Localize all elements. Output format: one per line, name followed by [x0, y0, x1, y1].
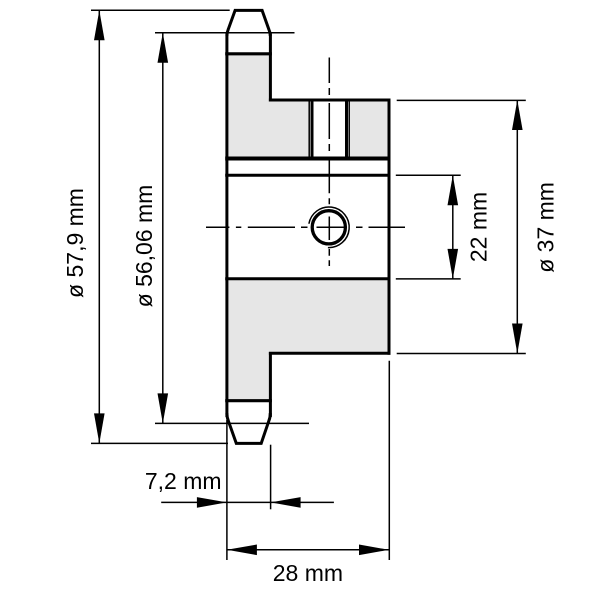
- sprocket upper body fill (plate + hub top): [227, 54, 389, 159]
- extension line tooth width left: [226, 420, 228, 560]
- svg-text:ø 37 mm: ø 37 mm: [533, 182, 559, 273]
- set-screw front hole thick circle: [312, 211, 345, 244]
- keyway top line: [225, 157, 390, 161]
- dimension line 22: [452, 175, 454, 279]
- upper tooth root line: [225, 52, 272, 55]
- extension line pitch dia bottom: [155, 422, 309, 424]
- svg-text:ø 57,9 mm: ø 57,9 mm: [62, 188, 88, 298]
- dimension line dia 57,9: [98, 10, 100, 443]
- dimension line 7,2 left part: [161, 501, 227, 503]
- extension line hub dia bottom: [397, 353, 526, 355]
- set-screw hole wall right: [345, 100, 348, 158]
- dimension line dia 56,06: [162, 33, 164, 424]
- set-screw hole cut-out (white): [309, 100, 349, 158]
- dimension line 7,2 middle part: [227, 501, 271, 503]
- bore bottom line: [225, 277, 390, 280]
- plate right edge upper: [269, 32, 272, 102]
- svg-text:7,2 mm: 7,2 mm: [145, 468, 222, 494]
- extension line hub dia top: [397, 99, 526, 101]
- set-screw front thread arc: [309, 207, 349, 248]
- svg-text:28 mm: 28 mm: [273, 560, 343, 586]
- bore top line: [225, 174, 390, 177]
- extension line tooth width right: [270, 445, 272, 510]
- set-screw hole wall left: [311, 100, 314, 158]
- extension line bore bottom: [396, 278, 461, 280]
- hub right edge: [388, 99, 391, 355]
- sprocket lower body fill (bore bottom to hub bottom + plate): [227, 279, 389, 401]
- extension line pitch dia top: [155, 32, 295, 34]
- hub bottom line: [269, 352, 391, 355]
- svg-text:ø 56,06 mm: ø 56,06 mm: [131, 185, 157, 308]
- extension line tip dia top: [91, 9, 230, 11]
- lower tooth outline: [227, 413, 270, 443]
- dimension line 28: [227, 549, 389, 551]
- extension line hub length right: [388, 361, 390, 560]
- horizontal centerline (bore axis): [206, 226, 405, 228]
- svg-text:22 mm: 22 mm: [466, 192, 492, 262]
- hub top line: [269, 99, 391, 102]
- set-screw thread line right: [348, 101, 350, 159]
- dimension line 7,2 right part: [271, 501, 334, 503]
- set-screw thread line left: [308, 101, 310, 159]
- vertical centerline (set-screw axis): [328, 58, 330, 267]
- extension line bore top: [396, 174, 461, 176]
- lower tooth root line: [225, 399, 272, 402]
- extension line tip dia bottom: [91, 442, 228, 444]
- dimension line dia 37: [516, 100, 518, 354]
- left face edge: [225, 32, 228, 417]
- upper tooth outline: [227, 10, 270, 36]
- plate right edge lower: [269, 352, 272, 417]
